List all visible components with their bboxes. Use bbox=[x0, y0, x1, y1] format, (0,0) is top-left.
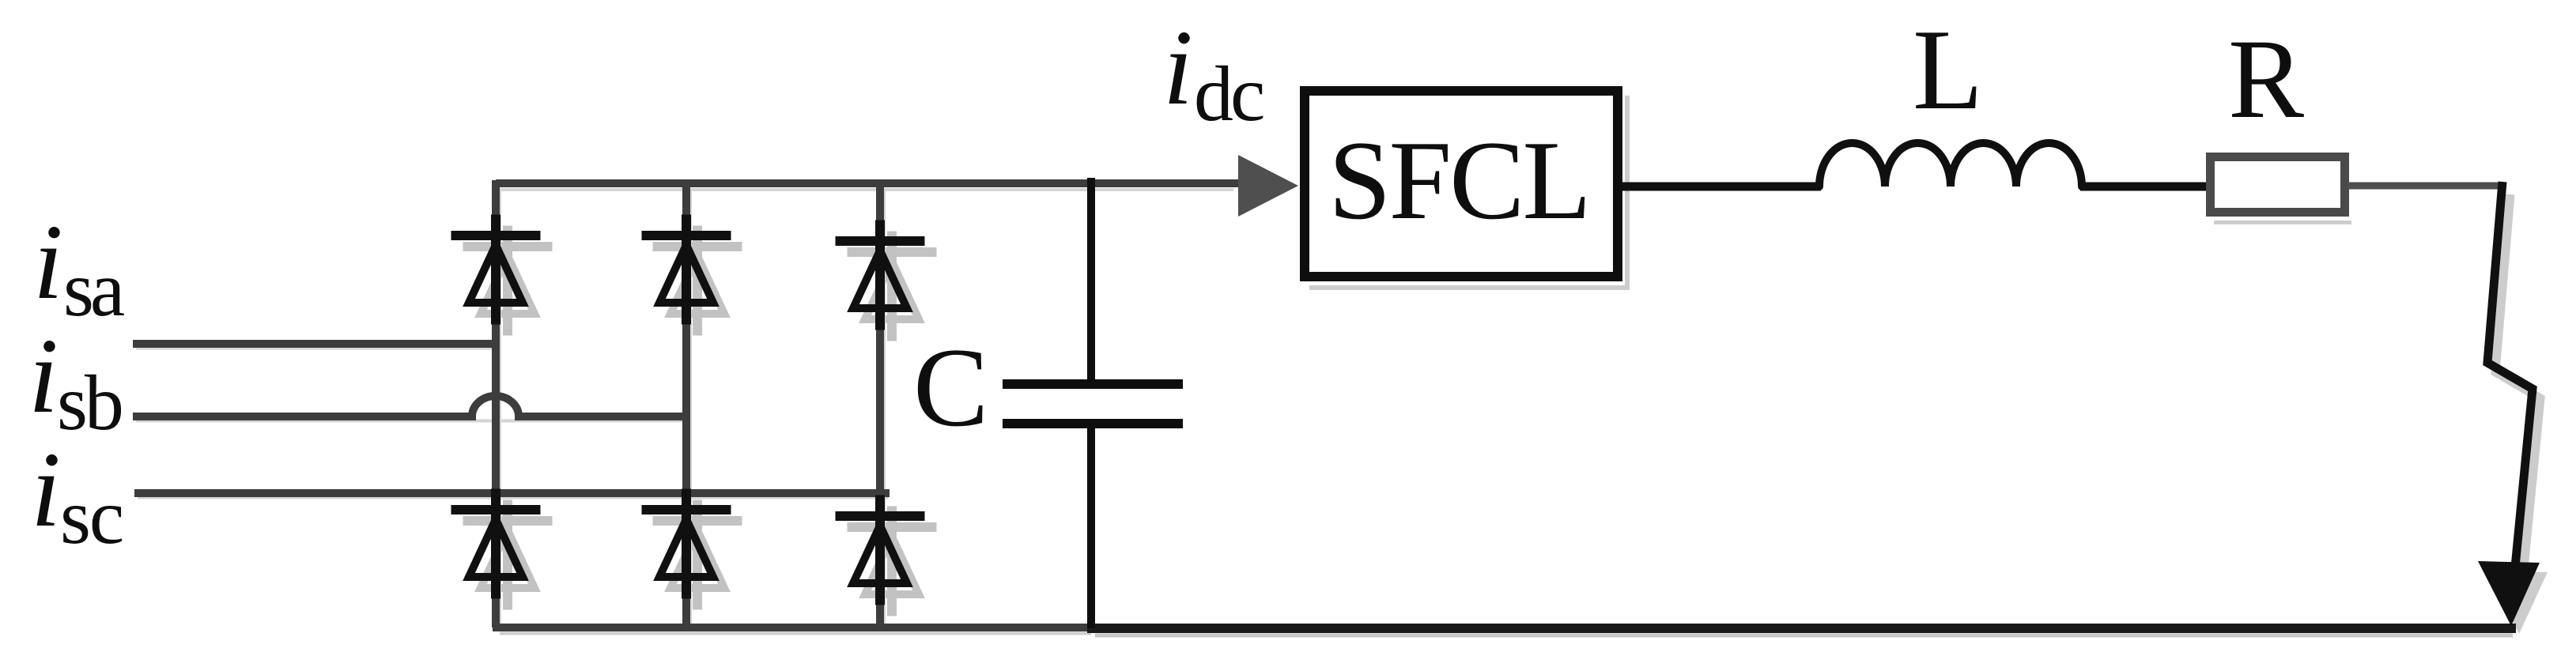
svg-text:sb: sb bbox=[57, 359, 122, 447]
svg-text:i: i bbox=[31, 431, 61, 549]
svg-text:i: i bbox=[1163, 9, 1193, 127]
svg-text:SFCL: SFCL bbox=[1328, 118, 1589, 243]
svg-text:C: C bbox=[913, 325, 988, 450]
svg-text:i: i bbox=[33, 203, 63, 322]
svg-text:sa: sa bbox=[63, 245, 125, 333]
svg-text:dc: dc bbox=[1194, 50, 1263, 138]
svg-text:i: i bbox=[28, 317, 59, 435]
svg-text:L: L bbox=[1913, 6, 1983, 134]
svg-text:R: R bbox=[2228, 17, 2304, 142]
svg-text:sc: sc bbox=[60, 473, 123, 560]
